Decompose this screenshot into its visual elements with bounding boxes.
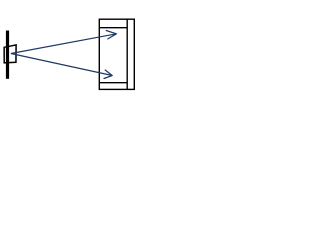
screen inner top line xyxy=(99,27,127,29)
screen inner vertical line xyxy=(126,19,128,89)
screen outer frame xyxy=(99,19,134,89)
pole / stand xyxy=(6,31,9,79)
screen inner bottom line xyxy=(99,82,127,84)
upper ray arrow xyxy=(11,31,117,54)
projector panel xyxy=(4,45,16,63)
lower ray arrow xyxy=(11,54,112,79)
